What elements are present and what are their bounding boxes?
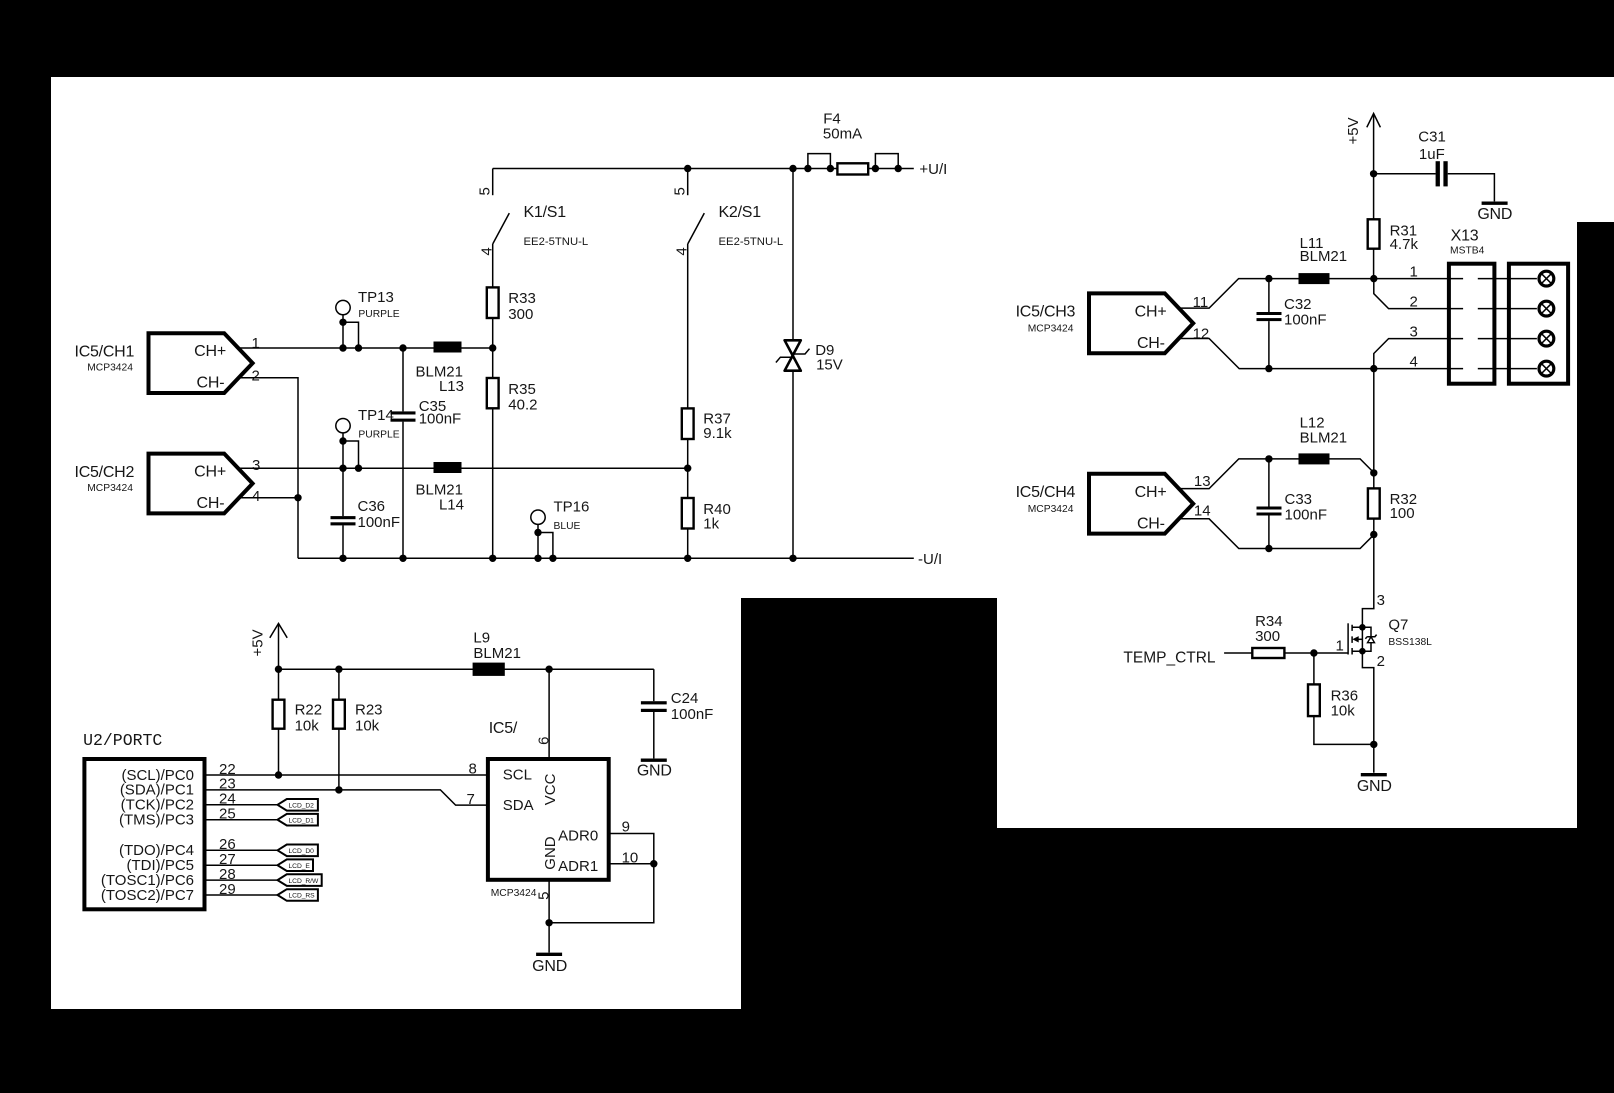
- svg-text:(TOSC2)/PC7: (TOSC2)/PC7: [101, 887, 194, 904]
- capacitor C36: [331, 468, 401, 558]
- svg-text:1k: 1k: [703, 516, 719, 533]
- svg-text:ADR1: ADR1: [558, 858, 598, 875]
- svg-text:L9: L9: [473, 629, 490, 646]
- svg-text:TP14: TP14: [358, 407, 394, 424]
- U2 pin numbers: [219, 761, 236, 898]
- resistor R35: [487, 378, 538, 413]
- svg-text:5: 5: [536, 892, 553, 900]
- svg-text:IC5/CH3: IC5/CH3: [1016, 304, 1076, 321]
- svg-text:MCP3424: MCP3424: [491, 888, 537, 899]
- svg-text:BLM21: BLM21: [473, 645, 521, 662]
- resistor R23: [333, 669, 383, 790]
- svg-text:4.7k: 4.7k: [1390, 236, 1419, 253]
- ground symbol GND (C31): [1477, 203, 1512, 223]
- resistor R36: [1308, 653, 1374, 744]
- svg-text:MCP3424: MCP3424: [1028, 504, 1074, 515]
- svg-text:14: 14: [1194, 503, 1211, 520]
- svg-text:LCD_D0: LCD_D0: [289, 848, 315, 855]
- wire pin24 to flag: [205, 804, 278, 806]
- svg-text:1: 1: [1410, 263, 1418, 280]
- svg-text:PURPLE: PURPLE: [358, 309, 399, 320]
- svg-text:BLUE: BLUE: [554, 521, 581, 532]
- relay contact K1/S1: [476, 169, 588, 256]
- svg-text:CH+: CH+: [1135, 484, 1167, 501]
- wire SDA pin23 to IC5 pin7: [205, 790, 488, 805]
- U2 pin labels inside: [101, 767, 194, 904]
- svg-text:4: 4: [252, 488, 260, 505]
- page panel left: [51, 77, 741, 1009]
- net flag LCD_E: [278, 859, 314, 871]
- wire CH4 pin13 net: [1179, 459, 1373, 489]
- ground symbol GND (C24): [637, 760, 672, 780]
- wire R37 to node with CH2+: [687, 439, 689, 498]
- relay contact K2/S1: [671, 169, 783, 256]
- ground symbol GND (Q7): [1357, 775, 1392, 795]
- svg-text:GND: GND: [532, 958, 567, 975]
- block IC5/CH4: [1016, 474, 1194, 534]
- net flag LCD_D1: [278, 814, 318, 826]
- svg-text:100: 100: [1390, 505, 1415, 522]
- svg-text:GND: GND: [637, 763, 672, 780]
- svg-text:(TMS)/PC3: (TMS)/PC3: [119, 812, 194, 829]
- svg-text:MSTB4: MSTB4: [1450, 245, 1485, 256]
- ferrite bead L11 BLM21: [1299, 235, 1348, 284]
- svg-text:R23: R23: [355, 702, 383, 719]
- X13 pin 4 contact: [1478, 361, 1554, 376]
- svg-text:3: 3: [1410, 323, 1418, 340]
- wire TEMP_CTRL to R34: [1224, 652, 1252, 654]
- capacitor C35: [391, 348, 462, 558]
- wire X13 pin2 jog from node: [1374, 279, 1463, 309]
- svg-text:IC5/CH2: IC5/CH2: [75, 464, 135, 481]
- svg-text:12: 12: [1193, 325, 1210, 342]
- resistor R34: [1252, 613, 1284, 658]
- wire K1 pin4 to R33: [492, 244, 494, 287]
- wire R32 bottom to CH4- node: [1373, 519, 1375, 535]
- +U/I rail wire: [493, 168, 914, 170]
- +5V rail wire: [279, 668, 654, 670]
- wire IC5 GND pin5: [548, 880, 550, 953]
- svg-text:1uF: 1uF: [1419, 146, 1445, 163]
- resistor R40: [682, 498, 731, 533]
- wire drain net down to Q7: [1362, 535, 1373, 628]
- svg-text:Q7: Q7: [1388, 617, 1408, 634]
- wire ADR1 pin10: [549, 864, 654, 923]
- net flag LCD_D2: [278, 799, 318, 811]
- node junction dots on CH1+ wire: [339, 344, 346, 351]
- svg-text:+U/I: +U/I: [919, 161, 947, 178]
- svg-text:1: 1: [252, 335, 260, 352]
- svg-text:L13: L13: [439, 378, 464, 395]
- wire D9 column from +U/I rail: [792, 169, 794, 559]
- wire net CH2+: [239, 467, 688, 469]
- svg-text:GND: GND: [1477, 206, 1512, 223]
- svg-text:GND: GND: [1357, 778, 1392, 795]
- svg-text:MCP3424: MCP3424: [1028, 323, 1074, 334]
- svg-text:VCC: VCC: [542, 773, 559, 805]
- svg-text:300: 300: [508, 306, 533, 323]
- svg-text:100nF: 100nF: [358, 514, 401, 531]
- svg-text:-U/I: -U/I: [918, 551, 942, 568]
- svg-text:R22: R22: [295, 702, 323, 719]
- resistor R32: [1368, 488, 1417, 522]
- net flag LCD_RS: [278, 889, 318, 901]
- wire pin4 of CH2 to vertical: [239, 497, 299, 499]
- svg-text:100nF: 100nF: [671, 706, 714, 723]
- svg-text:7: 7: [467, 791, 475, 808]
- wire CH4 pin14 net: [1179, 519, 1373, 549]
- wire pin28 to flag: [205, 879, 278, 881]
- ferrite bead L14 BLM21: [415, 462, 464, 514]
- fuse F4: [804, 111, 902, 175]
- testpoint TP16: [531, 499, 590, 559]
- node +5V / C31 junction: [1370, 170, 1377, 177]
- svg-text:C24: C24: [671, 690, 699, 707]
- svg-text:9.1k: 9.1k: [703, 425, 732, 442]
- svg-text:PURPLE: PURPLE: [358, 430, 399, 441]
- svg-text:5: 5: [476, 187, 493, 195]
- page panel right top extension: [1577, 77, 1614, 222]
- svg-text:3: 3: [252, 457, 260, 474]
- svg-text:10k: 10k: [355, 717, 380, 734]
- svg-text:GND: GND: [542, 836, 559, 870]
- wire Q7 source pin2 down: [1362, 651, 1373, 773]
- svg-text:CH-: CH-: [1137, 516, 1165, 533]
- wire pin29 to flag: [205, 894, 278, 896]
- svg-text:IC5/CH4: IC5/CH4: [1016, 484, 1076, 501]
- svg-text:IC5/CH1: IC5/CH1: [75, 343, 135, 360]
- wire R33 to node: [492, 318, 494, 378]
- svg-text:U2/PORTC: U2/PORTC: [83, 731, 162, 750]
- svg-text:C31: C31: [1418, 129, 1446, 146]
- svg-text:8: 8: [469, 760, 477, 777]
- svg-text:15V: 15V: [816, 357, 843, 374]
- svg-text:SCL: SCL: [503, 767, 532, 784]
- svg-text:TP16: TP16: [554, 499, 590, 516]
- wire ADR0 pin9: [609, 834, 654, 864]
- testpoint TP14: [336, 407, 400, 468]
- svg-text:L14: L14: [439, 497, 464, 514]
- svg-text:1: 1: [1336, 638, 1344, 655]
- svg-text:TP13: TP13: [358, 289, 394, 306]
- IC block IC5 (MCP3424): [488, 720, 609, 899]
- svg-text:40.2: 40.2: [508, 396, 537, 413]
- svg-text:BLM21: BLM21: [1300, 248, 1348, 265]
- IC block U2/PORTC: [83, 731, 204, 909]
- svg-text:CH+: CH+: [194, 343, 226, 360]
- page panel middle: [741, 77, 1008, 598]
- svg-text:+5V: +5V: [250, 629, 267, 656]
- svg-text:300: 300: [1255, 628, 1280, 645]
- block IC5/CH1: [75, 333, 253, 393]
- wire R34 to Q7 gate: [1284, 652, 1348, 654]
- wire R40 to -U/I rail: [687, 529, 689, 559]
- wire R35 to -U/I rail: [492, 408, 494, 558]
- svg-text:CH+: CH+: [194, 464, 226, 481]
- svg-text:LCD_E: LCD_E: [289, 863, 311, 870]
- transistor Q7 BSS138L: [1348, 617, 1432, 655]
- resistor R33: [487, 287, 536, 322]
- ground symbol GND (IC5): [532, 954, 567, 975]
- supply +5V arrow (left): [250, 624, 288, 670]
- wire pin25 to flag: [205, 819, 278, 821]
- svg-text:BSS138L: BSS138L: [1388, 637, 1432, 648]
- svg-text:MCP3424: MCP3424: [87, 362, 133, 373]
- wire K2 pin4 to R37: [687, 244, 689, 408]
- page panel right: [997, 77, 1577, 828]
- svg-text:TEMP_CTRL: TEMP_CTRL: [1123, 649, 1216, 666]
- capacitor C24: [641, 690, 713, 759]
- svg-text:ADR0: ADR0: [558, 828, 598, 845]
- wire CH3 pin11 net: [1179, 279, 1463, 309]
- wire SCL pin22 to IC5 pin8: [205, 774, 488, 776]
- svg-text:CH-: CH-: [1137, 335, 1165, 352]
- svg-text:SDA: SDA: [503, 797, 534, 814]
- svg-text:EE2-5TNU-L: EE2-5TNU-L: [719, 236, 784, 248]
- ferrite bead L9 BLM21: [473, 629, 521, 675]
- resistor R31: [1368, 174, 1419, 279]
- testpoint TP13: [336, 289, 400, 348]
- svg-text:LCD_R/W: LCD_R/W: [289, 878, 319, 885]
- svg-text:50mA: 50mA: [823, 126, 862, 143]
- svg-text:5: 5: [671, 187, 688, 195]
- resistor R37: [682, 408, 732, 442]
- -U/I rail wire: [298, 557, 914, 559]
- wire net CH1+: [239, 347, 493, 349]
- X13 pin 3 contact: [1478, 331, 1554, 346]
- svg-text:+5V: +5V: [1345, 117, 1362, 144]
- wire CH3 pin12 net: [1180, 339, 1464, 369]
- svg-text:100nF: 100nF: [1284, 311, 1327, 328]
- svg-text:10k: 10k: [1331, 702, 1356, 719]
- svg-text:CH-: CH-: [197, 374, 225, 391]
- X13 pin 1 contact: [1478, 271, 1554, 286]
- svg-text:K2/S1: K2/S1: [719, 204, 762, 221]
- wire pin26 to flag: [205, 849, 278, 851]
- svg-text:X13: X13: [1451, 227, 1479, 244]
- svg-text:IC5/: IC5/: [489, 720, 518, 737]
- svg-text:BLM21: BLM21: [1300, 430, 1348, 447]
- capacitor C32: [1257, 279, 1327, 369]
- wire +5V rail corner to C24: [653, 669, 655, 701]
- svg-text:EE2-5TNU-L: EE2-5TNU-L: [524, 236, 589, 248]
- wire X13 net down to R32: [1373, 369, 1375, 489]
- svg-text:LCD_D1: LCD_D1: [289, 817, 315, 824]
- svg-text:LCD_RS: LCD_RS: [289, 893, 316, 900]
- wire pin2 of CH1 down to -U/I rail: [239, 378, 299, 559]
- supply +5V arrow (right): [1345, 114, 1380, 174]
- net flag LCD_R/W: [278, 874, 322, 886]
- svg-text:CH+: CH+: [1135, 303, 1167, 320]
- svg-text:K1/S1: K1/S1: [524, 204, 567, 221]
- wire IC5 VCC pin6: [548, 669, 550, 759]
- svg-text:MCP3424: MCP3424: [87, 483, 133, 494]
- X13 pin 2 contact: [1478, 301, 1554, 316]
- svg-text:LCD_D2: LCD_D2: [289, 803, 315, 810]
- wire X13 pin3 jog from node: [1374, 339, 1463, 369]
- TVS diode D9: [776, 340, 843, 373]
- svg-text:2: 2: [252, 367, 260, 384]
- wire pin27 to flag: [205, 864, 278, 866]
- svg-text:100nF: 100nF: [419, 410, 462, 427]
- block IC5/CH3: [1016, 293, 1194, 353]
- connector X13: [1449, 227, 1568, 383]
- svg-text:6: 6: [536, 737, 553, 745]
- resistor R22: [273, 669, 323, 775]
- svg-text:R35: R35: [508, 381, 536, 398]
- svg-text:2: 2: [1377, 653, 1385, 670]
- svg-text:13: 13: [1194, 473, 1211, 490]
- capacitor C31: [1374, 129, 1495, 202]
- net flag LCD_D0: [278, 845, 318, 857]
- svg-text:2: 2: [1410, 293, 1418, 310]
- svg-text:C36: C36: [358, 498, 386, 515]
- svg-text:4: 4: [1410, 353, 1418, 370]
- svg-text:10k: 10k: [295, 717, 320, 734]
- svg-text:CH-: CH-: [197, 495, 225, 512]
- svg-text:100nF: 100nF: [1285, 506, 1328, 523]
- svg-text:3: 3: [1377, 592, 1385, 609]
- ferrite bead L12 BLM21: [1299, 415, 1348, 465]
- block IC5/CH2: [75, 454, 253, 514]
- svg-text:R33: R33: [508, 290, 536, 307]
- ferrite bead L13 BLM21: [415, 342, 464, 395]
- capacitor C33: [1257, 459, 1328, 549]
- svg-text:C32: C32: [1284, 296, 1312, 313]
